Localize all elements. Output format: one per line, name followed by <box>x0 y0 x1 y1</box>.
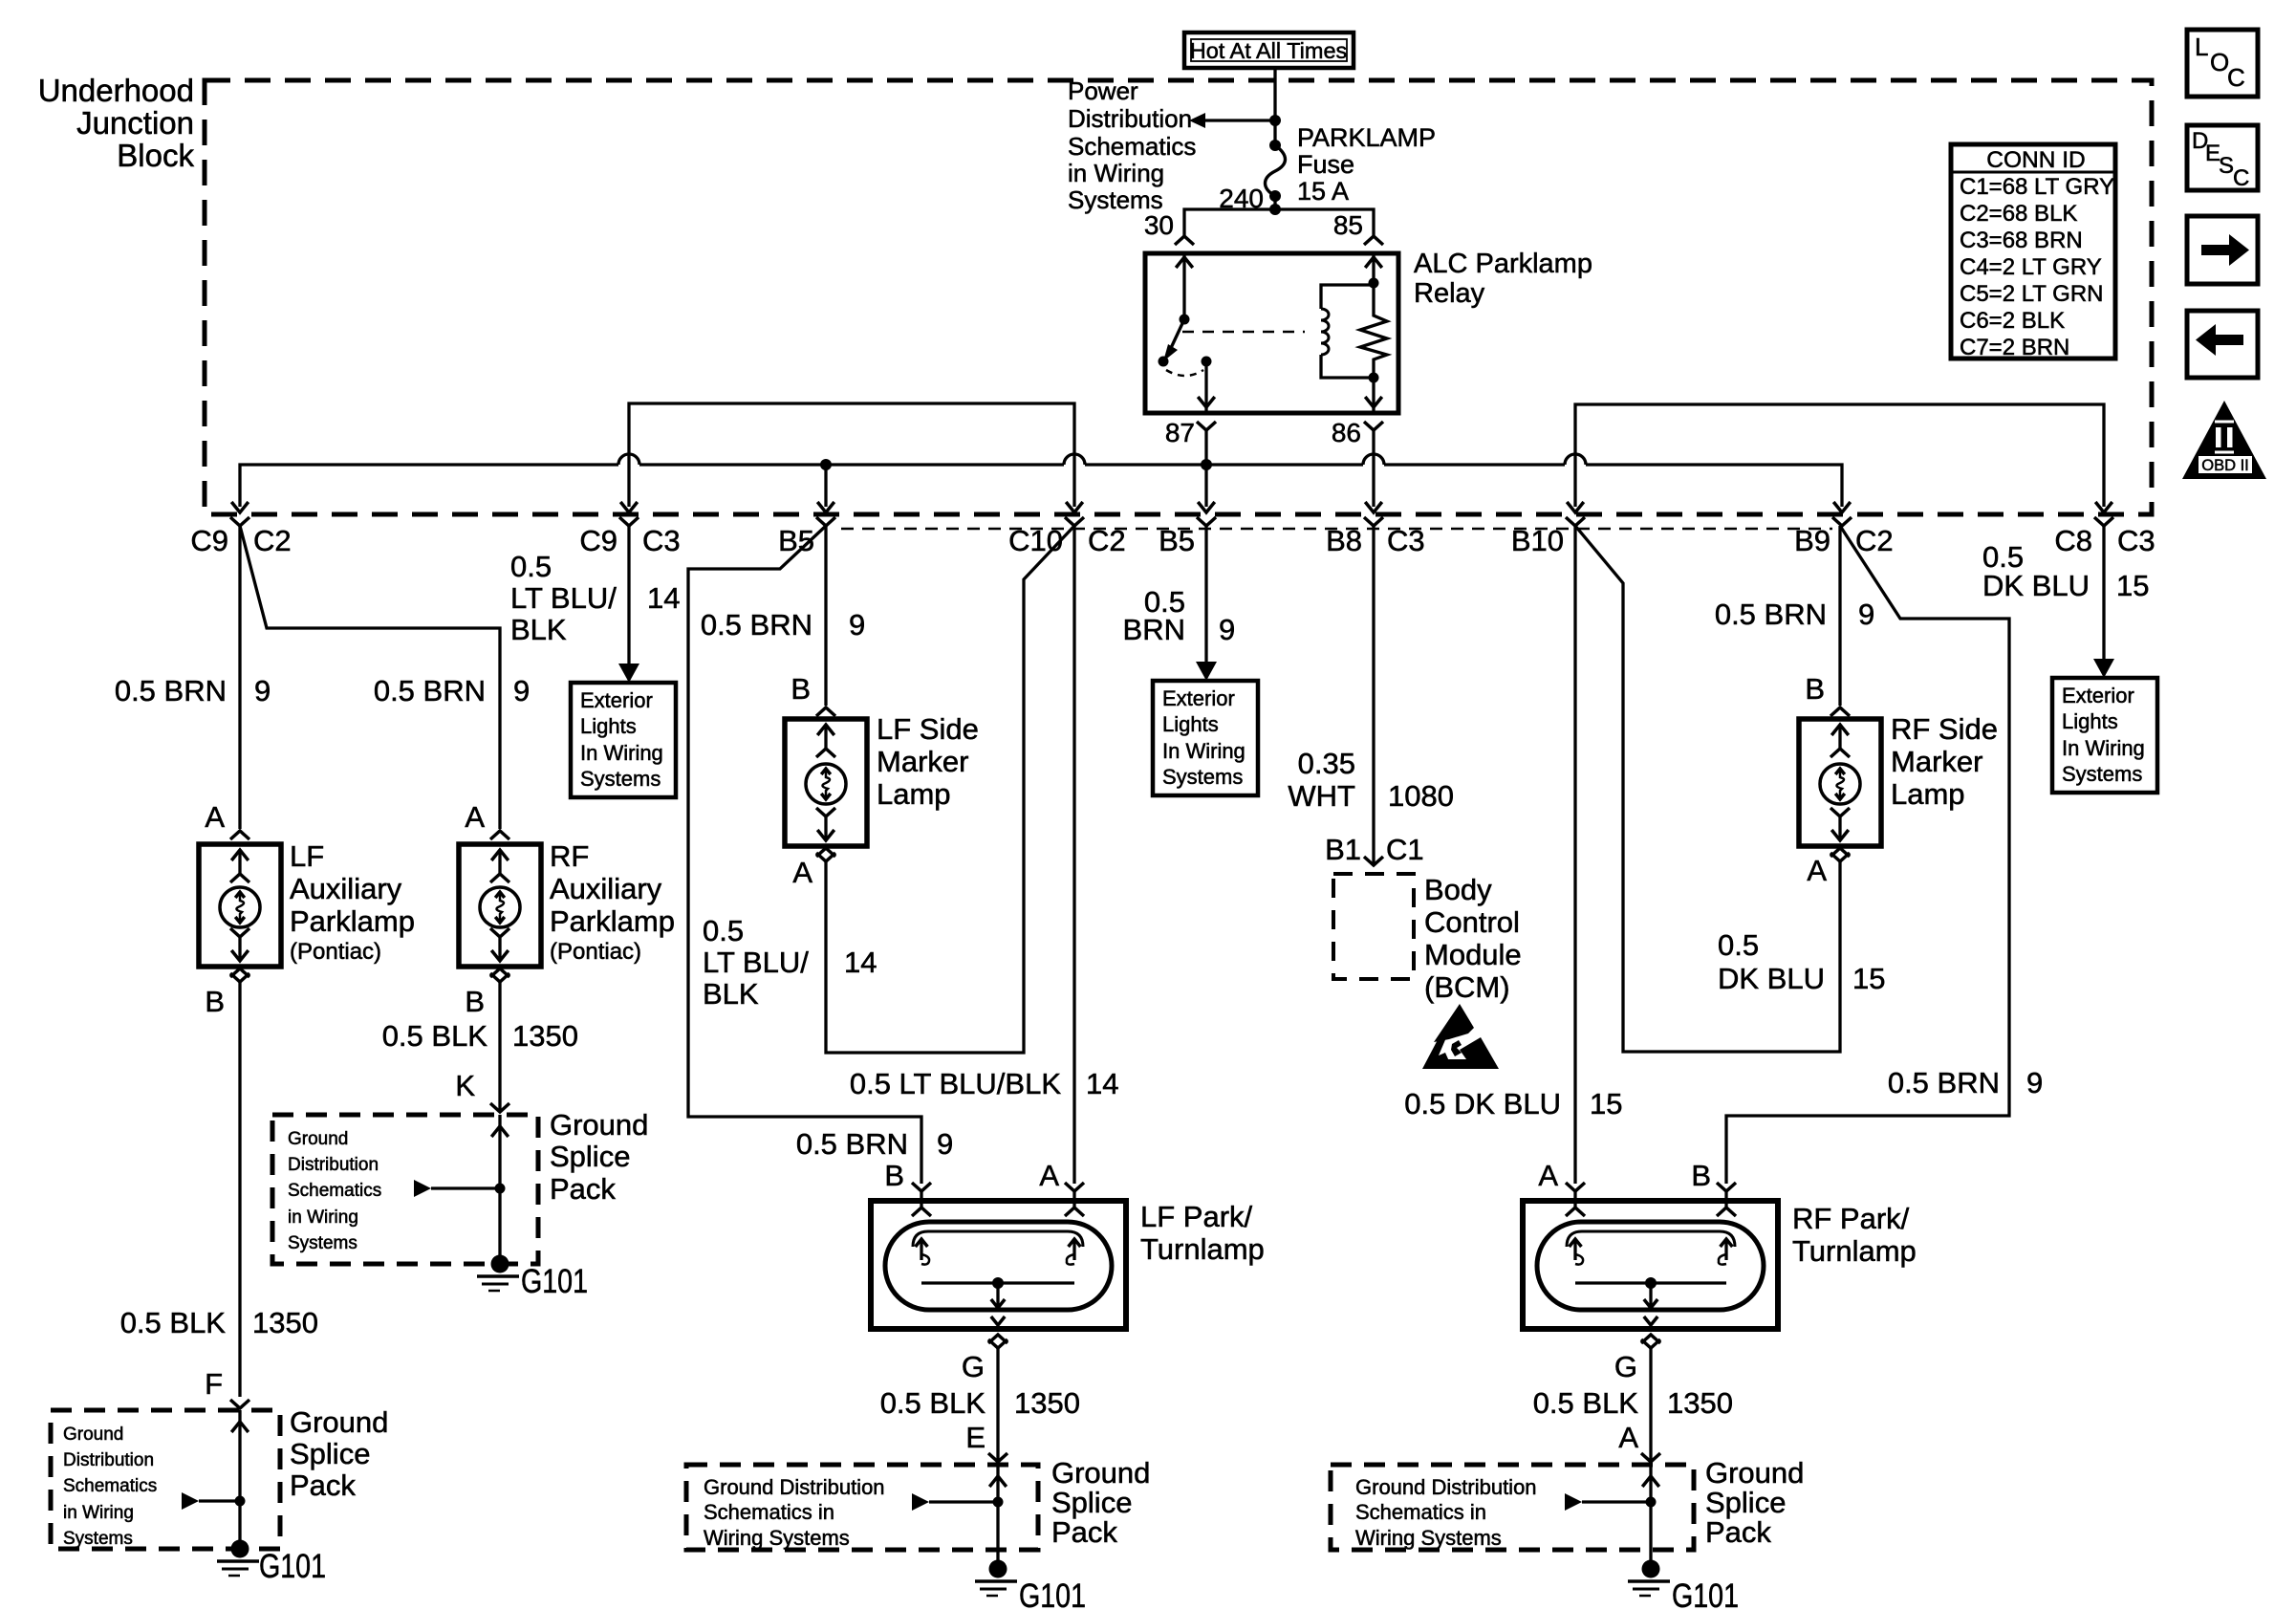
relay switch dashed throw arc <box>1166 370 1203 376</box>
connector C9/C2 at junction block <box>190 517 291 557</box>
wire C9/C2 to RF Auxiliary Parklamp A <box>240 526 500 829</box>
svg-text:B9: B9 <box>1794 524 1830 557</box>
wire LF side marker A loop to C10/C2 <box>826 526 1074 1053</box>
ground distribution box bottom left <box>51 1410 280 1549</box>
svg-text:0.5 BLK: 0.5 BLK <box>1533 1386 1639 1420</box>
svg-text:14: 14 <box>647 581 680 615</box>
label terminal A LF park <box>1039 1159 1059 1192</box>
svg-text:0.5 BRN: 0.5 BRN <box>701 608 812 642</box>
ground distribution box upper <box>272 1115 538 1264</box>
svg-text:1350: 1350 <box>252 1306 318 1339</box>
ground G101 bottom left <box>217 1540 326 1586</box>
svg-text:0.5 BRN: 0.5 BRN <box>374 674 486 707</box>
svg-text:Marker: Marker <box>1891 745 1982 778</box>
svg-text:A: A <box>1538 1159 1558 1192</box>
svg-text:Exterior: Exterior <box>580 688 653 712</box>
connector B5 at junction block <box>778 517 835 557</box>
ground G101 upper <box>477 1255 588 1301</box>
svg-text:C3: C3 <box>1387 524 1425 557</box>
svg-text:0.5: 0.5 <box>703 914 744 947</box>
svg-text:B1: B1 <box>1325 833 1361 866</box>
svg-text:0.5 BRN: 0.5 BRN <box>115 674 227 707</box>
svg-text:Splice: Splice <box>1705 1486 1786 1519</box>
module Body Control Module BCM dashed box <box>1333 874 1414 979</box>
label Power Distribution Schematics in Wiring Systems <box>1068 76 1196 214</box>
label terminal B LF park <box>884 1159 904 1192</box>
svg-text:C2: C2 <box>1855 524 1894 557</box>
symbol ESD sensitive device <box>1422 1004 1499 1069</box>
svg-text:Systems: Systems <box>580 767 661 791</box>
svg-text:Wiring Systems: Wiring Systems <box>704 1526 850 1550</box>
svg-text:Systems: Systems <box>63 1529 133 1549</box>
connector B8/C3 at junction block <box>1326 517 1425 557</box>
svg-text:LF Side: LF Side <box>877 712 979 746</box>
arrow into junction block at B8/C3 <box>1365 502 1382 512</box>
svg-text:G101: G101 <box>1019 1577 1086 1610</box>
wire LF park G to ground splice pack <box>996 1348 999 1460</box>
svg-text:A: A <box>465 800 485 834</box>
label 0.5 BLK 1350 (LF park ground) <box>880 1386 1080 1420</box>
connector F <box>230 1400 249 1408</box>
relay pin 87 internal wire <box>1198 361 1215 413</box>
svg-text:Lights: Lights <box>1162 712 1219 736</box>
svg-text:Marker: Marker <box>877 745 968 778</box>
wire relay pin 87 drop <box>1201 430 1212 507</box>
svg-text:Relay: Relay <box>1414 278 1485 309</box>
pin 87 connector <box>1165 418 1216 447</box>
label pin 85 <box>1333 210 1363 240</box>
svg-text:C4=2 LT GRY: C4=2 LT GRY <box>1960 254 2102 280</box>
arrow into junction block at B5 right <box>1198 502 1215 512</box>
wire B10 to RF park/turnlamp A <box>1573 526 1576 1184</box>
terminal A connector LF aux <box>205 800 249 839</box>
label 0.5 BLK 1350 (RF aux ground) <box>382 1019 578 1053</box>
label terminal E <box>965 1421 986 1454</box>
label 0.5 DK BLU 15 (RF park A) <box>1404 1087 1622 1120</box>
svg-text:Ground: Ground <box>1051 1456 1150 1490</box>
lamp LF Side Marker Lamp <box>785 719 867 846</box>
svg-text:Schematics: Schematics <box>288 1181 381 1201</box>
pin 85 connector <box>1364 236 1383 245</box>
label 0.5 BRN 9 (B5 right) <box>1123 585 1236 646</box>
svg-text:Splice: Splice <box>1051 1486 1132 1519</box>
svg-text:Schematics in: Schematics in <box>1355 1500 1486 1524</box>
label 0.5 BLK 1350 (LF aux ground) <box>120 1306 318 1339</box>
svg-text:Underhood: Underhood <box>38 73 194 108</box>
svg-text:DK BLU: DK BLU <box>1718 962 1825 995</box>
svg-text:C2: C2 <box>1088 524 1126 557</box>
svg-text:0.5 BLK: 0.5 BLK <box>880 1386 986 1420</box>
ground splice pack wire bottom middle <box>912 1465 1007 1560</box>
svg-text:Exterior: Exterior <box>2062 684 2134 707</box>
svg-text:C6=2 BLK: C6=2 BLK <box>1960 308 2065 334</box>
lamp LF Auxiliary Parklamp <box>199 844 281 967</box>
svg-text:0.5: 0.5 <box>510 550 552 583</box>
svg-text:In Wiring: In Wiring <box>580 741 663 765</box>
svg-text:B: B <box>884 1159 904 1192</box>
svg-text:Auxiliary: Auxiliary <box>550 872 662 905</box>
relay ALC Parklamp Relay box <box>1145 253 1398 413</box>
ground distribution box bottom middle <box>686 1465 1038 1550</box>
svg-text:1350: 1350 <box>1014 1386 1080 1420</box>
svg-text:S: S <box>2219 153 2234 179</box>
svg-text:Splice: Splice <box>550 1140 630 1173</box>
svg-text:RF Park/: RF Park/ <box>1792 1202 1910 1235</box>
svg-text:B: B <box>205 985 225 1018</box>
svg-text:9: 9 <box>1858 598 1874 631</box>
label 0.5 BRN 9 (RF park B) <box>1888 1066 2043 1099</box>
svg-text:B: B <box>465 985 485 1018</box>
svg-text:C2=68 BLK: C2=68 BLK <box>1960 201 2077 227</box>
svg-text:30: 30 <box>1144 210 1174 240</box>
svg-text:Systems: Systems <box>2062 762 2142 786</box>
svg-text:LT BLU/: LT BLU/ <box>703 946 809 979</box>
svg-text:C2: C2 <box>253 524 292 557</box>
svg-text:C9: C9 <box>190 524 228 557</box>
lamp LF Park/Turnlamp <box>871 1183 1126 1348</box>
svg-text:Distribution: Distribution <box>288 1155 379 1175</box>
relay pin 85 exit wire <box>1365 378 1382 413</box>
icon OBD II triangle <box>2182 401 2266 479</box>
terminal B connector RF side marker <box>1805 672 1850 716</box>
svg-text:Module: Module <box>1424 938 1522 971</box>
connector B10 at junction block <box>1511 517 1585 557</box>
icon forward arrow box <box>2187 216 2258 284</box>
svg-text:B8: B8 <box>1326 524 1362 557</box>
svg-text:Schematics: Schematics <box>63 1476 157 1496</box>
label Underhood Junction Block <box>38 73 195 173</box>
relay resistor <box>1360 253 1387 378</box>
wire bus upper-left segment <box>629 403 1074 507</box>
svg-text:0.5 BLK: 0.5 BLK <box>120 1306 227 1339</box>
ground G101 bottom right <box>1628 1560 1739 1610</box>
label terminal B RF park <box>1691 1159 1711 1192</box>
connector C10/C2 at junction block <box>1008 517 1126 557</box>
relay coil <box>1321 285 1374 378</box>
svg-text:14: 14 <box>844 946 877 979</box>
svg-text:B: B <box>791 672 811 706</box>
svg-text:Junction: Junction <box>76 105 194 141</box>
svg-text:0.5 BLK: 0.5 BLK <box>382 1019 488 1053</box>
svg-text:Systems: Systems <box>1162 765 1243 789</box>
label Ground Splice Pack bottom middle <box>1051 1456 1150 1549</box>
svg-text:1350: 1350 <box>512 1019 578 1053</box>
node exterior lights in wiring systems box 3 <box>2052 678 2157 793</box>
arrow into junction block at B5 left <box>817 502 834 512</box>
connector A at ground splice <box>1641 1453 1660 1462</box>
svg-text:85: 85 <box>1333 210 1363 240</box>
label PARKLAMP Fuse 15 A <box>1297 123 1436 206</box>
terminal A connector RF aux <box>465 800 509 839</box>
svg-text:B10: B10 <box>1511 524 1564 557</box>
svg-text:C8: C8 <box>2054 524 2092 557</box>
label ALC Parklamp Relay <box>1414 249 1592 309</box>
svg-text:Lamp: Lamp <box>1891 777 1965 811</box>
svg-text:Distribution: Distribution <box>63 1450 154 1470</box>
svg-text:PARKLAMP: PARKLAMP <box>1297 123 1436 152</box>
svg-text:9: 9 <box>937 1127 953 1161</box>
svg-text:C3: C3 <box>642 524 681 557</box>
svg-text:Exterior: Exterior <box>1162 686 1235 710</box>
svg-text:BLK: BLK <box>510 613 567 646</box>
svg-text:LF: LF <box>290 839 324 873</box>
junction block Underhood Junction Block dashed border <box>205 80 2152 514</box>
arrow into junction block at C9/C2 <box>231 502 249 512</box>
svg-text:Control: Control <box>1424 905 1520 939</box>
svg-text:Distribution: Distribution <box>1068 104 1192 133</box>
wire to power distribution schematics <box>1189 113 1275 128</box>
svg-text:A: A <box>792 856 812 889</box>
icon LOC box <box>2187 30 2258 97</box>
wire fuse feed from Hot At All Times <box>1273 68 1276 120</box>
wire B9/C2 to RF side marker B <box>1838 526 1841 706</box>
wire C9/C3 to exterior lights <box>618 526 639 683</box>
connector B1/C1 at BCM <box>1325 833 1424 866</box>
svg-text:0.5 LT BLU/BLK: 0.5 LT BLU/BLK <box>850 1067 1061 1100</box>
terminal B connector LF aux <box>205 968 249 1018</box>
arrow into junction block at C10/C2 <box>1066 502 1083 512</box>
ground splice pack wire bottom right <box>1565 1465 1659 1560</box>
svg-text:F: F <box>205 1367 223 1401</box>
arrow into junction block at B9/C2 <box>1833 502 1851 512</box>
node bus junction dot B5 <box>820 459 832 470</box>
lamp RF Auxiliary Parklamp <box>459 844 541 967</box>
svg-text:Splice: Splice <box>290 1437 370 1470</box>
label RF Side Marker Lamp <box>1891 712 1998 811</box>
label terminal G LF park <box>962 1350 985 1383</box>
svg-text:Lamp: Lamp <box>877 777 951 811</box>
fuse PARKLAMP Fuse 15 A <box>1266 120 1286 209</box>
wire RF park G to ground splice pack <box>1649 1348 1652 1460</box>
svg-text:Ground Distribution: Ground Distribution <box>1355 1475 1537 1499</box>
pin 86 connector <box>1332 418 1383 447</box>
wire bus upper-right segment <box>1575 404 2104 507</box>
node exterior lights in wiring systems box 1 <box>571 683 676 797</box>
svg-text:CONN ID: CONN ID <box>1986 147 2085 173</box>
svg-text:In Wiring: In Wiring <box>1162 739 1245 763</box>
svg-text:14: 14 <box>1086 1067 1118 1100</box>
svg-text:E: E <box>965 1421 986 1454</box>
svg-text:9: 9 <box>513 674 530 707</box>
ground distribution box bottom right <box>1331 1465 1694 1550</box>
connector B9/C2 at junction block <box>1794 517 1894 557</box>
svg-text:(BCM): (BCM) <box>1424 970 1510 1004</box>
node exterior lights in wiring systems box 2 <box>1153 681 1258 795</box>
svg-text:C: C <box>2233 165 2249 191</box>
relay switch NO contact dot <box>1202 357 1212 367</box>
svg-text:in Wiring: in Wiring <box>1068 159 1164 187</box>
lamp RF Side Marker Lamp <box>1799 719 1881 846</box>
svg-text:Schematics in: Schematics in <box>704 1500 834 1524</box>
svg-text:BLK: BLK <box>703 977 759 1011</box>
dashed harness boundary line <box>841 528 1832 531</box>
wire C8/C3 to exterior lights <box>2093 526 2114 678</box>
svg-text:0.5 BRN: 0.5 BRN <box>796 1127 908 1161</box>
svg-text:Ground: Ground <box>288 1129 348 1149</box>
svg-text:G: G <box>1614 1350 1637 1383</box>
svg-text:G: G <box>962 1350 985 1383</box>
svg-text:15: 15 <box>1852 962 1885 995</box>
label Ground Splice Pack upper <box>550 1108 648 1206</box>
wire B9/C2 to RF park/turnlamp B <box>1726 526 2009 1184</box>
svg-text:in Wiring: in Wiring <box>63 1503 134 1523</box>
table CONN ID <box>1951 144 2115 360</box>
connector C9/C3 at junction block <box>579 517 680 557</box>
label 0.5 BRN 9 (RF aux feed) <box>374 674 530 707</box>
ground G101 bottom middle <box>975 1560 1086 1610</box>
svg-text:LF Park/: LF Park/ <box>1140 1200 1253 1233</box>
label Ground Splice Pack bottom left <box>290 1405 388 1502</box>
svg-text:BRN: BRN <box>1123 613 1185 646</box>
svg-text:0.5 BRN: 0.5 BRN <box>1715 598 1827 631</box>
label 0.5 BRN 9 (LF park B) <box>796 1127 953 1161</box>
svg-text:Fuse: Fuse <box>1297 150 1354 179</box>
wire relay pin 86 drop <box>1372 430 1375 507</box>
svg-text:1080: 1080 <box>1388 779 1454 813</box>
svg-text:Ground: Ground <box>1705 1456 1804 1490</box>
svg-text:Schematics: Schematics <box>1068 132 1196 161</box>
label LF Park/Turnlamp <box>1140 1200 1265 1266</box>
label 0.35 WHT 1080 <box>1288 747 1454 813</box>
svg-text:B5: B5 <box>1159 524 1195 557</box>
svg-text:A: A <box>205 800 225 834</box>
relay switch common contact dot <box>1159 357 1169 367</box>
svg-text:15: 15 <box>2116 569 2149 602</box>
label RF Park/Turnlamp <box>1792 1202 1917 1268</box>
terminal A connector LF side marker <box>792 848 835 889</box>
svg-text:C: C <box>2227 63 2245 92</box>
svg-text:15: 15 <box>1590 1087 1622 1120</box>
svg-text:Parklamp: Parklamp <box>290 904 415 938</box>
label 0.5 LT BLU/BLK (LF side marker) <box>703 914 877 1011</box>
relay actuation dashed link <box>1182 331 1305 334</box>
label terminal K <box>455 1069 475 1102</box>
ground splice pack wire upper <box>414 1115 509 1264</box>
svg-text:0.5: 0.5 <box>1718 928 1759 962</box>
svg-text:In Wiring: In Wiring <box>2062 736 2145 760</box>
wire B5 drop <box>824 466 827 507</box>
svg-text:Wiring Systems: Wiring Systems <box>1355 1526 1502 1550</box>
svg-text:Pack: Pack <box>1051 1515 1117 1549</box>
svg-text:A: A <box>1807 854 1827 887</box>
svg-text:Auxiliary: Auxiliary <box>290 872 402 905</box>
wire C9/C2 to LF Auxiliary Parklamp A <box>238 526 241 829</box>
svg-text:DK BLU: DK BLU <box>1982 569 2090 602</box>
label Body Control Module (BCM) <box>1424 873 1522 1004</box>
label 0.5 BRN 9 (LF aux feed) <box>115 674 271 707</box>
terminal B connector LF side marker <box>791 672 835 716</box>
svg-text:K: K <box>455 1069 475 1102</box>
connector B5 at junction block <box>1159 517 1216 557</box>
svg-text:A: A <box>1618 1421 1638 1454</box>
svg-text:RF: RF <box>550 839 589 873</box>
wire C10/C2 to LF park/turnlamp A <box>1072 526 1075 1184</box>
svg-text:ALC Parklamp: ALC Parklamp <box>1414 249 1592 279</box>
label Ground Splice Pack bottom right <box>1705 1456 1804 1549</box>
svg-text:Lights: Lights <box>580 714 637 738</box>
label 0.5 DK BLU 15 (C8/C3) <box>1982 540 2149 602</box>
svg-text:0.35: 0.35 <box>1298 747 1355 780</box>
wire B5 to exterior lights <box>1196 526 1217 681</box>
svg-text:1350: 1350 <box>1667 1386 1733 1420</box>
svg-text:G101: G101 <box>259 1548 326 1585</box>
svg-text:Ground: Ground <box>550 1108 648 1142</box>
wire B5 to LF park/turnlamp B <box>688 526 921 1184</box>
svg-text:C3=68 BRN: C3=68 BRN <box>1960 228 2083 253</box>
label 0.5 DK BLU 15 (RF side marker) <box>1718 928 1885 995</box>
svg-text:C1: C1 <box>1386 833 1424 866</box>
label terminal A RF park <box>1538 1159 1558 1192</box>
node Hot At All Times box <box>1184 33 1354 68</box>
svg-text:G101: G101 <box>1672 1577 1739 1610</box>
svg-text:Pack: Pack <box>290 1469 356 1502</box>
svg-text:0.5 BRN: 0.5 BRN <box>1888 1066 2000 1099</box>
icon back arrow box <box>2187 311 2258 378</box>
svg-text:Power: Power <box>1068 76 1138 105</box>
terminal A connector RF side marker <box>1807 848 1850 887</box>
icon DESC box <box>2187 125 2258 191</box>
wire fuse branch to relay pins 30 and 85 <box>1184 204 1374 235</box>
svg-text:OBD II: OBD II <box>2201 457 2249 474</box>
svg-text:C3: C3 <box>2117 524 2155 557</box>
svg-text:15 A: 15 A <box>1297 177 1349 206</box>
label 0.5 BRN 9 (LF side marker) <box>701 608 865 642</box>
label terminal A RF park ground <box>1618 1421 1638 1454</box>
svg-text:WHT: WHT <box>1288 779 1355 813</box>
connector C8/C3 at junction block <box>2054 517 2155 557</box>
svg-text:Block: Block <box>117 138 194 173</box>
label terminal G RF park <box>1614 1350 1637 1383</box>
pin 30 connector <box>1175 236 1194 245</box>
label 0.5 LT BLU/BLK 14 (LF park A) <box>850 1067 1119 1100</box>
terminal B connector RF aux <box>465 968 509 1018</box>
relay pin 30 internal wire <box>1176 253 1193 319</box>
svg-text:C10: C10 <box>1008 524 1063 557</box>
svg-text:C9: C9 <box>579 524 617 557</box>
svg-text:LT BLU/: LT BLU/ <box>510 581 617 615</box>
connector K <box>490 1103 509 1112</box>
svg-text:C1=68 LT GRY: C1=68 LT GRY <box>1960 174 2114 200</box>
svg-text:RF Side: RF Side <box>1891 712 1998 746</box>
svg-text:Systems: Systems <box>288 1233 357 1253</box>
wire RF aux B to ground splice pack K <box>498 982 501 1110</box>
label 0.5 BRN 9 (RF side marker) <box>1715 598 1874 631</box>
svg-text:G101: G101 <box>521 1263 588 1300</box>
label 0.5 BLK 1350 (RF park ground) <box>1533 1386 1733 1420</box>
relay switch arm <box>1163 319 1184 361</box>
relay switch pivot dot <box>1180 315 1190 325</box>
svg-text:Body: Body <box>1424 873 1492 906</box>
relay coil node dots <box>1369 278 1379 383</box>
svg-text:L: L <box>2195 33 2208 61</box>
label circuit 240 <box>1219 184 1264 213</box>
label terminal F <box>205 1367 223 1401</box>
label RF Auxiliary Parklamp (Pontiac) <box>550 839 675 965</box>
label LF Auxiliary Parklamp (Pontiac) <box>290 839 415 965</box>
wire B8/C3 to BCM <box>1372 526 1375 863</box>
svg-text:87: 87 <box>1165 418 1195 447</box>
arrow into junction block at C8/C3 <box>2095 502 2112 512</box>
svg-text:Hot At All Times: Hot At All Times <box>1190 38 1348 63</box>
svg-text:0.5 DK BLU: 0.5 DK BLU <box>1404 1087 1561 1120</box>
label pin 30 <box>1144 210 1174 240</box>
svg-text:C7=2 BRN: C7=2 BRN <box>1960 335 2069 360</box>
arrow into junction block at B10 <box>1567 502 1584 512</box>
label 0.5 LT BLU/BLK 14 (C9/C3) <box>510 550 680 646</box>
wire LF aux B to ground splice pack F <box>238 982 241 1397</box>
svg-text:Ground: Ground <box>290 1405 388 1439</box>
lamp RF Park/Turnlamp <box>1523 1183 1778 1348</box>
